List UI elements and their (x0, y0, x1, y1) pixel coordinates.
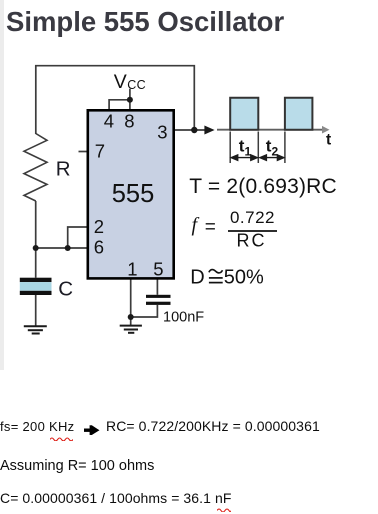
wire pin2 jog (68, 227, 88, 248)
junction dot output node (191, 127, 197, 133)
junction dot Vcc (127, 97, 133, 103)
svg-text:555: 555 (112, 180, 155, 208)
wire resistor bottom to node to cap C (35, 201, 37, 278)
circuit SVG (0, 0, 378, 400)
title (6, 6, 284, 38)
ground below C (24, 326, 47, 333)
wire pin3 output (174, 129, 205, 131)
svg-text:4: 4 (104, 111, 114, 132)
IC U1 555 body (88, 110, 174, 278)
svg-text:2: 2 (94, 216, 104, 237)
wire top loop from resistor top to output node (36, 66, 195, 134)
red squiggle under nF (217, 507, 231, 512)
left gray strip (0, 0, 4, 370)
junction dot pin1-pin5 (128, 314, 134, 320)
svg-text:8: 8 (124, 111, 134, 132)
ground below pin1 (120, 326, 142, 333)
wire pin1 to ground (130, 278, 132, 325)
wire Vcc bracket pin4 (109, 100, 130, 111)
capacitor 100nF plates (146, 295, 171, 305)
svg-text:f: f (192, 214, 200, 236)
capacitor C plates (20, 278, 52, 295)
svg-text:CC: CC (127, 78, 146, 92)
wire pin7 stub (79, 151, 88, 153)
svg-text:RC: RC (237, 230, 267, 250)
waveform pulse 2 (285, 98, 313, 130)
wire cap 100n to pin1 wire (131, 305, 158, 317)
resistor R zigzag (24, 134, 47, 202)
svg-text:t: t (326, 131, 331, 148)
wire pin5 to cap 100n (156, 278, 158, 294)
svg-text:1: 1 (245, 144, 252, 158)
svg-text:T = 2(0.693)RC: T = 2(0.693)RC (189, 175, 337, 198)
bottom text line 3 (0, 490, 231, 506)
approx-equal symbol of D formula (209, 270, 223, 283)
svg-text:2: 2 (272, 144, 279, 158)
bottom text line 1 part a (0, 419, 74, 434)
junction dot pin2/6 (65, 245, 71, 251)
bottom text line 1 part b (106, 418, 320, 434)
wire cap C to ground (35, 295, 37, 326)
svg-text:V: V (114, 71, 127, 93)
output arrow (204, 126, 214, 135)
waveform time axis (217, 129, 323, 131)
svg-text:D: D (190, 267, 204, 289)
t1 t2 delimiter lines (230, 132, 285, 164)
t1 span arrow (231, 155, 257, 160)
fraction bar (228, 230, 277, 232)
svg-text:1: 1 (127, 259, 137, 280)
wire Vcc stub pin8 (129, 89, 131, 111)
svg-text:6: 6 (94, 236, 104, 257)
svg-text:C: C (58, 277, 73, 300)
t2 span arrow (260, 155, 284, 160)
svg-text:0.722: 0.722 (230, 208, 275, 227)
svg-text:100nF: 100nF (163, 310, 204, 326)
svg-text:5: 5 (153, 259, 163, 280)
red squiggle under KHz (50, 436, 73, 441)
junction dot node R-C (33, 245, 39, 251)
arrow of line 1 (84, 425, 100, 435)
svg-text:3: 3 (157, 121, 167, 142)
bottom text line 2 (0, 458, 154, 474)
svg-text:R: R (56, 158, 71, 181)
svg-text:=: = (205, 217, 216, 238)
svg-text:7: 7 (95, 140, 105, 161)
waveform pulse 1 (230, 98, 258, 130)
svg-text:50%: 50% (224, 267, 264, 289)
wire node to pin6 (36, 247, 88, 249)
